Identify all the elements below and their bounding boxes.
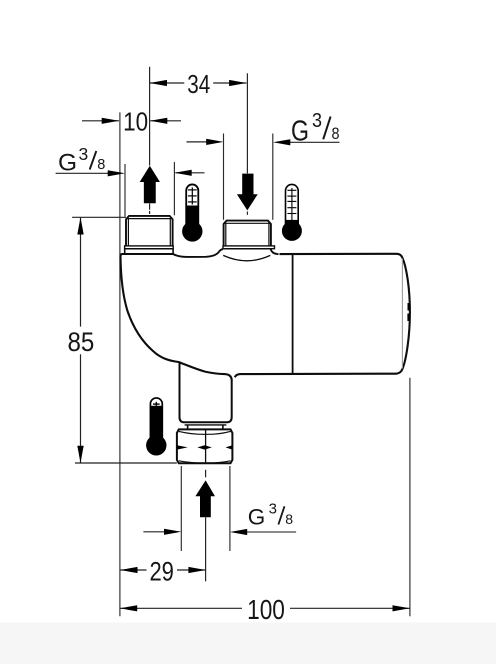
centerline: right inlet: [246, 73, 248, 215]
flow arrow down (right inlet): [237, 174, 258, 211]
label G3/8 top-left: [56, 144, 125, 177]
flow arrow up (left inlet): [140, 166, 160, 203]
dimension 10: [82, 106, 181, 136]
cap tangent edge line: [401, 259, 403, 369]
extension line: right inlet thread right edge: [272, 134, 274, 220]
dimension 85: [68, 217, 177, 463]
label G3/8 top-right: [273, 110, 340, 148]
extension line: right inlet thread left edge: [223, 134, 225, 220]
body top step between connectors: [173, 249, 223, 257]
extension line: body left tangent: [119, 112, 121, 616]
thermostat cartridge outline: [235, 254, 410, 377]
dimension 100: [120, 594, 410, 625]
extension line: body right tangent: [409, 378, 411, 616]
svg-text:G: G: [58, 149, 77, 176]
leader arrow at bottom thread left edge: [143, 529, 181, 535]
dimension 34: [150, 69, 247, 99]
leader arrow at right inlet left edge: [187, 139, 224, 145]
screw slot marks on cap edge: [407, 303, 410, 321]
left connector pedestal sides: [125, 249, 173, 254]
body/cartridge boundary line: [292, 254, 294, 374]
svg-text:10: 10: [123, 106, 148, 136]
svg-text:G: G: [248, 504, 266, 529]
extension line: bottom thread left edge: [180, 466, 182, 551]
dimension 29: [120, 557, 206, 587]
svg-text:3: 3: [269, 500, 277, 517]
flow arrow up (bottom outlet): [195, 480, 215, 517]
svg-text:8: 8: [285, 511, 293, 527]
union nut: [177, 429, 233, 463]
svg-text:29: 29: [149, 557, 174, 587]
thermometer T1 (left inlet): [182, 184, 202, 241]
thermometer T3 (bottom outlet): [146, 398, 166, 456]
extension line: bottom thread right edge: [229, 466, 231, 551]
arc boss under right connector: [223, 255, 270, 260]
extension line: left inlet thread left edge: [124, 164, 126, 217]
body shoulder right of right connector: [271, 249, 279, 254]
centerline: left inlet: [149, 67, 151, 214]
svg-text:8: 8: [332, 125, 340, 143]
svg-text:85: 85: [68, 327, 95, 357]
valve body top edge + left sweep outline: [121, 254, 232, 381]
leader arrow at left inlet right edge: [174, 170, 204, 176]
svg-text:100: 100: [247, 594, 285, 625]
left inlet connector (G3/8 male thread): [125, 216, 174, 249]
outlet stem: [180, 362, 232, 429]
extension line: left inlet thread right edge: [173, 162, 175, 215]
right inlet connector (G3/8 male thread): [223, 221, 275, 249]
label G3/8 bottom: [230, 500, 296, 535]
svg-text:8: 8: [97, 157, 105, 173]
svg-text:3: 3: [79, 144, 89, 164]
svg-text:3: 3: [312, 110, 322, 132]
footer gray band: [0, 623, 496, 664]
thermometer T2 (right inlet): [282, 184, 302, 240]
svg-text:34: 34: [187, 69, 210, 99]
centerline: bottom outlet: [205, 470, 207, 582]
